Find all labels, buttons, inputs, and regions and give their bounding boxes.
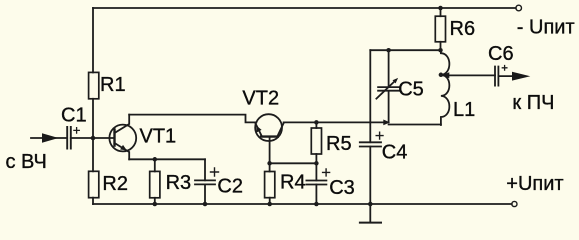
wire L1 tap to C6 bbox=[441, 74, 495, 76]
wire R5 top lead bbox=[315, 122, 317, 128]
node L1 tap bbox=[439, 73, 444, 78]
svg-text:R6: R6 bbox=[450, 18, 476, 40]
wire R1 bottom to base node bbox=[92, 99, 94, 138]
wire L1 bottom line bbox=[389, 124, 441, 126]
inductor L1 bbox=[441, 50, 449, 125]
VT1 emitter diagonal bbox=[115, 143, 130, 159]
VT1 base bar bbox=[113, 130, 115, 146]
wire C6 to output bbox=[498, 75, 513, 77]
svg-text:+Uпит: +Uпит bbox=[506, 173, 563, 195]
VT2 emitter arrow bbox=[256, 125, 261, 132]
svg-text:C2: C2 bbox=[217, 175, 243, 197]
node VT2 base junction bbox=[267, 161, 272, 166]
wire R3 bottom lead bbox=[154, 198, 156, 204]
svg-text:C4: C4 bbox=[382, 142, 408, 164]
svg-text:C5: C5 bbox=[398, 79, 424, 101]
node R5 top bbox=[314, 120, 319, 125]
resistor R5 bbox=[311, 128, 321, 154]
svg-text:R5: R5 bbox=[326, 133, 352, 155]
node R5 bottom bbox=[314, 161, 319, 166]
resistor R2 bbox=[89, 171, 99, 197]
ground bar bbox=[360, 222, 381, 224]
collector line arrow at tank bbox=[383, 120, 390, 126]
svg-text:R3: R3 bbox=[166, 172, 192, 194]
node C5 top bbox=[386, 48, 391, 53]
wire left vertical from top rail to R1 bbox=[92, 8, 94, 72]
C3 polarity plus bbox=[323, 169, 330, 176]
capacitor C3 plates bbox=[306, 181, 326, 185]
wire R4 top lead bbox=[269, 163, 271, 171]
input arrow с ВЧ bbox=[42, 133, 59, 143]
wire VT2 base to R5 bottom bbox=[270, 162, 317, 164]
C1 polarity plus bbox=[74, 128, 79, 133]
wire top supply rail bbox=[93, 7, 516, 9]
node C2 bottom bbox=[203, 202, 208, 207]
wire VT1 emitter line bbox=[129, 158, 205, 160]
VT1 emitter arrow bbox=[120, 145, 127, 151]
svg-text:- Uпит: - Uпит bbox=[517, 17, 575, 39]
transistor VT2 circle bbox=[255, 114, 282, 141]
resistor R1 bbox=[89, 72, 99, 98]
wire C2 top lead bbox=[204, 159, 206, 180]
node base junction bbox=[91, 136, 96, 141]
output arrow к ПЧ bbox=[512, 72, 530, 81]
VT2 emitter diagonal bbox=[255, 123, 261, 136]
node R6 top on rail bbox=[438, 6, 443, 11]
C4 polarity plus bbox=[376, 132, 383, 139]
wire VT2 collector line bbox=[284, 121, 384, 123]
wire bottom supply rail bbox=[93, 203, 512, 205]
svg-text:к ПЧ: к ПЧ bbox=[512, 92, 554, 114]
wire R6 bottom lead bbox=[440, 42, 442, 50]
capacitor C2 plates bbox=[195, 180, 215, 184]
VT2 base bar bbox=[261, 135, 278, 137]
VT2 collector diagonal bbox=[277, 123, 283, 136]
capacitor C1 plates bbox=[67, 127, 71, 149]
wire base node down to R2 bbox=[92, 138, 94, 171]
svg-text:с ВЧ: с ВЧ bbox=[6, 151, 47, 173]
svg-text:VT2: VT2 bbox=[242, 88, 279, 110]
node C3 bottom bbox=[314, 202, 319, 207]
node R3 bottom bbox=[153, 202, 158, 207]
wire R6 top lead bbox=[440, 8, 442, 16]
wire tank top line bbox=[370, 49, 440, 51]
resistor R3 bbox=[150, 171, 160, 197]
node R3 top bbox=[153, 157, 158, 162]
terminal +Uпит circle bbox=[512, 201, 517, 206]
wire input segment bbox=[31, 137, 66, 139]
svg-text:R1: R1 bbox=[100, 74, 126, 96]
L1 tap arrow bbox=[442, 72, 449, 78]
wire C1 to VT1 base bbox=[71, 137, 115, 139]
wire C5 branch upper bbox=[388, 50, 390, 86]
wire R4 bottom lead bbox=[269, 198, 271, 204]
wire C3 top lead bbox=[315, 163, 317, 180]
wire R3 top lead bbox=[154, 159, 156, 171]
VT1 collector diagonal bbox=[115, 115, 130, 133]
svg-text:VT1: VT1 bbox=[140, 126, 177, 148]
wire C4 bottom lead to rail and ground stub bbox=[369, 147, 371, 223]
terminal -Uпит circle bbox=[516, 5, 522, 11]
C5 arrowhead bbox=[393, 78, 399, 84]
wire C3 bottom lead bbox=[315, 185, 317, 205]
node C4 bottom on rail bbox=[368, 202, 373, 207]
capacitor C4 plates bbox=[360, 142, 381, 146]
wire R2 bottom to bottom rail bbox=[92, 198, 94, 204]
svg-text:C1: C1 bbox=[61, 105, 87, 127]
C6 polarity plus bbox=[502, 66, 507, 71]
node R4 bottom bbox=[267, 202, 272, 207]
svg-text:R2: R2 bbox=[102, 173, 128, 195]
C2 polarity plus bbox=[211, 168, 219, 176]
svg-text:C6: C6 bbox=[488, 43, 514, 65]
wire C5 branch lower bbox=[388, 91, 390, 122]
C5 variable arrow diagonal bbox=[376, 81, 395, 99]
VT2 base lead down bbox=[269, 137, 271, 164]
transistor VT1 circle bbox=[109, 125, 136, 152]
wire VT1 collector to VT2 emitter bbox=[129, 115, 256, 123]
svg-text:C3: C3 bbox=[329, 177, 355, 199]
capacitor C6 plates bbox=[495, 67, 498, 86]
resistor R4 bbox=[265, 172, 275, 198]
capacitor C5 plates bbox=[378, 87, 399, 91]
svg-text:R4: R4 bbox=[280, 171, 306, 193]
svg-text:L1: L1 bbox=[453, 99, 475, 121]
wire C2 bottom lead bbox=[204, 184, 206, 204]
wire tank left vertical upper bbox=[369, 50, 371, 142]
node R6 bottom tank top bbox=[438, 48, 443, 53]
resistor R6 bbox=[435, 16, 445, 42]
wire R5 bottom lead bbox=[315, 154, 317, 163]
